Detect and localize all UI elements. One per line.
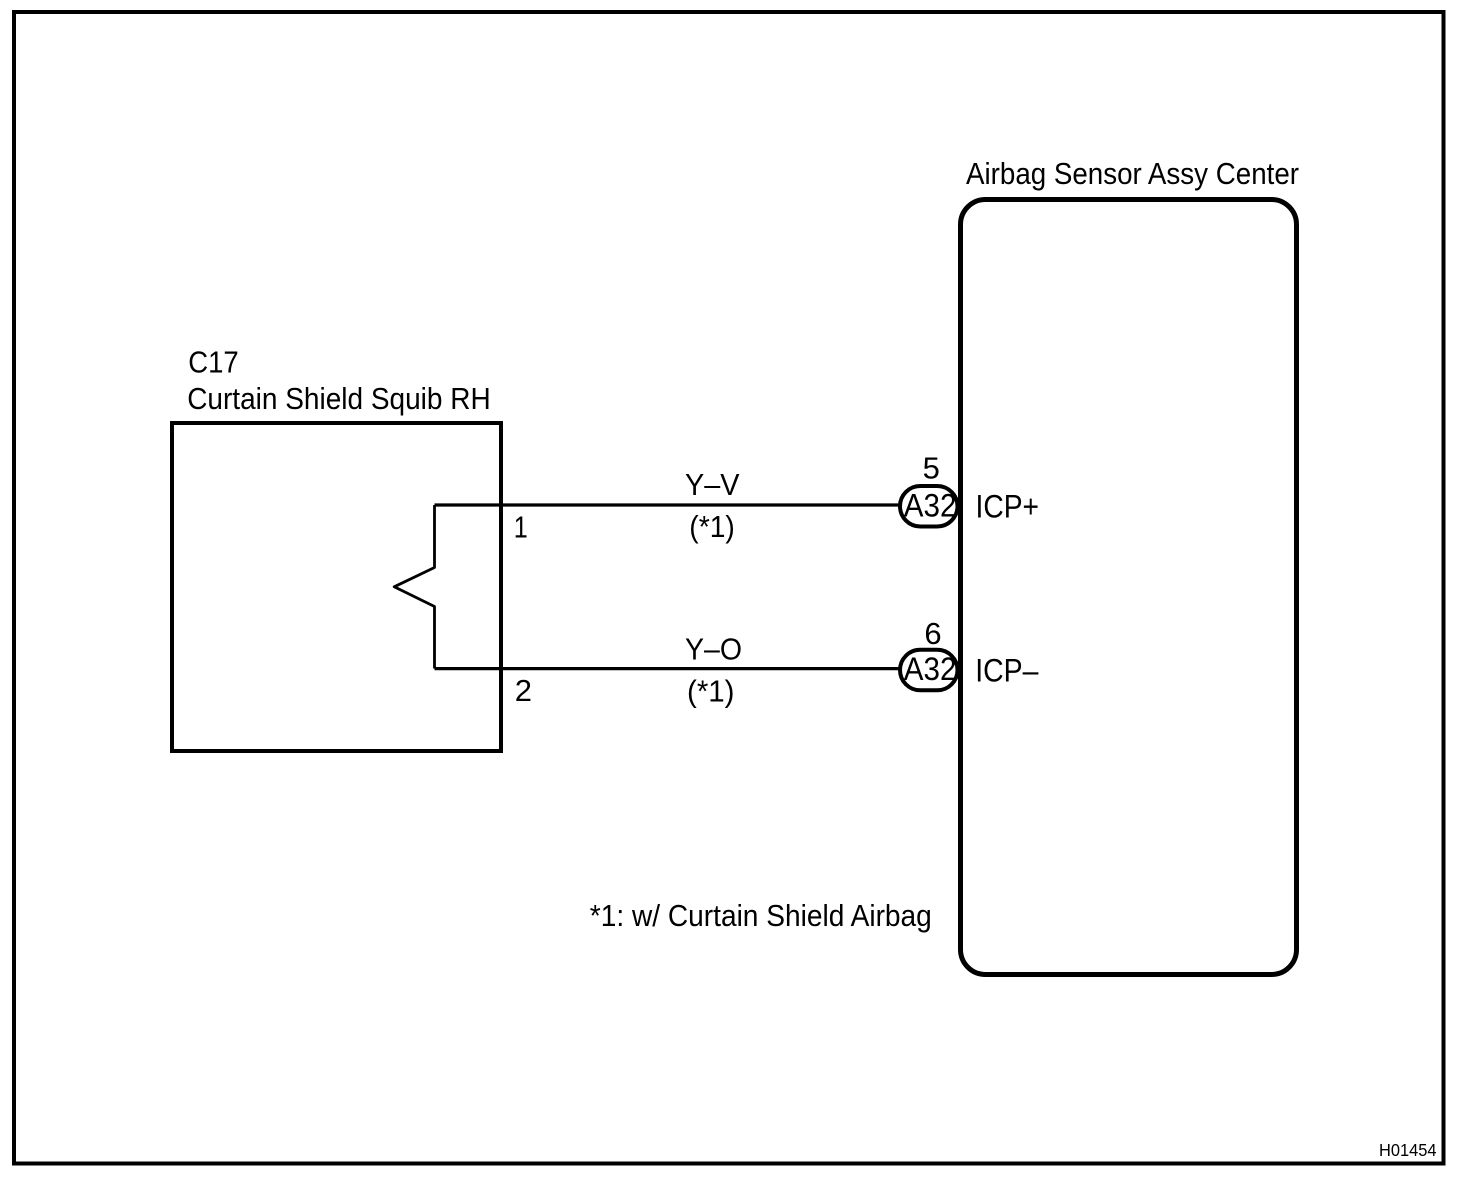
svg-text:C17: C17 bbox=[188, 345, 239, 380]
svg-text:5: 5 bbox=[923, 451, 940, 486]
svg-text:ICP+: ICP+ bbox=[976, 488, 1040, 524]
wire Y-V from C17 pin 1 to A32 pin 5 bbox=[435, 503, 903, 506]
svg-text:Y–O: Y–O bbox=[685, 632, 742, 667]
svg-text:Airbag Sensor Assy Center: Airbag Sensor Assy Center bbox=[966, 156, 1299, 191]
svg-text:Curtain Shield Squib RH: Curtain Shield Squib RH bbox=[187, 381, 491, 416]
svg-text:Y–V: Y–V bbox=[685, 467, 740, 502]
ECU box Airbag Sensor Assy Center bbox=[961, 200, 1297, 975]
svg-text:6: 6 bbox=[924, 616, 941, 651]
svg-text:A32: A32 bbox=[904, 651, 957, 687]
svg-text:2: 2 bbox=[515, 673, 532, 708]
wire Y-O from C17 pin 2 to A32 pin 6 bbox=[435, 667, 903, 670]
connector oval A32 (pin 5) bbox=[900, 486, 958, 527]
connector oval A32 (pin 6) bbox=[900, 650, 958, 691]
svg-text:(*1): (*1) bbox=[687, 673, 735, 708]
connector C17 Curtain Shield Squib RH (box) bbox=[172, 423, 501, 751]
svg-text:A32: A32 bbox=[904, 487, 957, 523]
connector C17 notch symbol bbox=[394, 505, 434, 669]
svg-text:(*1): (*1) bbox=[689, 509, 735, 544]
svg-text:*1: w/ Curtain Shield Airbag: *1: w/ Curtain Shield Airbag bbox=[590, 898, 932, 933]
svg-text:ICP–: ICP– bbox=[975, 653, 1039, 689]
svg-text:1: 1 bbox=[514, 509, 528, 544]
svg-text:H01454: H01454 bbox=[1379, 1140, 1437, 1160]
